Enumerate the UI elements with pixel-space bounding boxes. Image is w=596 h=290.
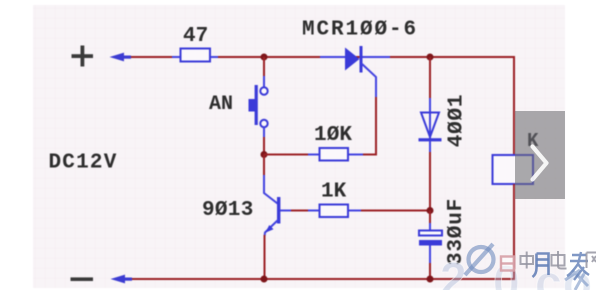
wire: right rail down to relay [513, 56, 515, 156]
node: top rail / diode branch [427, 54, 434, 61]
node: 1K / diode / cap junction [427, 207, 434, 214]
node: top rail / button branch [261, 54, 268, 61]
label 330uF (rotated) [445, 198, 468, 265]
wire: relay to bottom rail [513, 184, 515, 280]
resistor 10K [264, 148, 363, 161]
resistor R 47 [172, 49, 218, 62]
diode 4001 [419, 57, 442, 211]
gray outline char 网 (clipped) [587, 253, 596, 269]
thyristor MCR100-6 [320, 46, 390, 97]
gray translucent box (carousel) [515, 111, 565, 199]
label 9013 [202, 199, 254, 222]
minus terminal symbol [71, 277, 94, 281]
label 10K [314, 124, 352, 147]
node: bottom rail / cap branch [427, 276, 434, 283]
transistor 9013 [264, 155, 292, 280]
svg-text:2: 2 [440, 254, 467, 290]
top-left port arrow [110, 53, 132, 62]
relay K coil [493, 155, 534, 184]
label 47 [183, 25, 208, 48]
resistor 1K [291, 205, 362, 218]
ring logo [465, 244, 494, 275]
blue char 月 [533, 254, 549, 278]
bottom-left port arrow [111, 275, 133, 284]
plus terminal symbol [72, 46, 94, 67]
capacitor 330uF [419, 211, 442, 280]
pink char 日 [501, 257, 514, 271]
label AN [209, 93, 233, 116]
wire: gate down to 10K row [362, 97, 376, 155]
label 1K [321, 181, 347, 204]
pushbutton AN [249, 57, 268, 155]
node: bottom rail / transistor emitter [261, 276, 268, 283]
top rail wire [128, 56, 514, 58]
blue bottom-right partial char [565, 270, 588, 290]
DC12V label [49, 152, 118, 175]
node: button / 10K / collector junction [261, 151, 268, 158]
blue char 表(italic-ish) [567, 252, 589, 280]
label 4001 (rotated) [446, 94, 469, 148]
bottom rail wire [126, 278, 515, 280]
big pale watermark text [440, 254, 593, 290]
white chevron [533, 147, 547, 180]
label MCR100-6 [302, 19, 418, 42]
relay K label [527, 130, 539, 152]
gray outline char 电 [552, 251, 567, 269]
gray outline char 中 [521, 252, 534, 269]
wire: 1K to diode branch [361, 210, 430, 212]
